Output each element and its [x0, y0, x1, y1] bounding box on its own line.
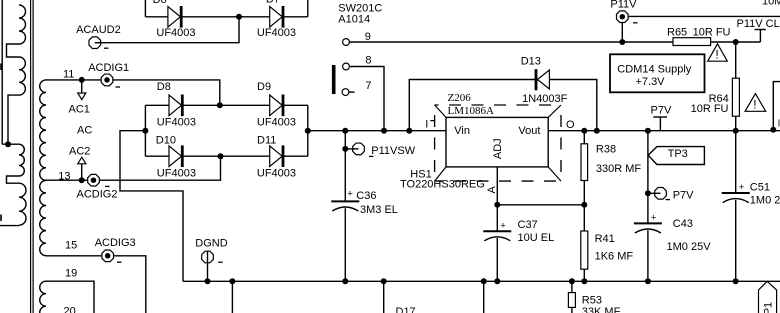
wire C37 bottom: [496, 238, 498, 281]
node rail x384: [381, 278, 387, 284]
connector ACDIG2 symbol: [88, 174, 100, 186]
wire R53 bottom: [571, 307, 573, 313]
resistor R53: [568, 293, 575, 308]
svg-text:LM1086A: LM1086A: [448, 105, 495, 117]
svg-text:D11: D11: [257, 135, 276, 147]
diode D9: [270, 95, 283, 116]
svg-text:P7V: P7V: [673, 189, 694, 201]
wire C51 bottom: [735, 200, 737, 281]
node AC2 arrow: [78, 157, 86, 164]
regulator heatsink dashed box right: [560, 105, 562, 181]
connector ACDIG1 symbol: [101, 74, 113, 86]
svg-text:+: +: [500, 220, 506, 231]
node output C43 branch junction: [645, 128, 651, 134]
svg-text:C36: C36: [356, 190, 376, 202]
warning triangle near R65: [708, 44, 728, 61]
wire R65 to stub corner: [711, 41, 761, 43]
wire R38 bottom: [583, 181, 585, 205]
label P11VSW minus: [369, 155, 374, 157]
wire R41 top: [583, 205, 585, 231]
node primary tap junction: [5, 141, 11, 147]
wire C36 bottom: [344, 208, 346, 281]
wire R53 top: [571, 281, 573, 292]
node rail R41: [581, 278, 587, 284]
svg-text:9: 9: [365, 31, 371, 43]
wire R41 bottom: [583, 269, 585, 281]
svg-text:SW201C: SW201C: [338, 2, 382, 14]
svg-text:+: +: [739, 182, 745, 193]
svg-text:8: 8: [365, 54, 371, 66]
label P11V CL stub bar: [755, 29, 766, 31]
svg-text:UF4003: UF4003: [257, 117, 296, 129]
node output R64 junction: [733, 128, 739, 134]
connector P11VSW symbol: [353, 143, 365, 155]
wire pin15 to ACDIG3: [46, 255, 101, 257]
transformer T1 core line right: [32, 0, 34, 313]
wire pin13 to ACDIG2: [46, 179, 88, 181]
wire primary jog S3-S4: [7, 176, 20, 183]
node P7V tap: [645, 190, 651, 196]
transformer T1 secondary winding 19-20: [40, 281, 46, 313]
wire ground rail: [183, 280, 780, 282]
node AC1 arrow: [78, 93, 86, 100]
svg-text:D8: D8: [157, 81, 171, 93]
switch SW201C actuator bar: [332, 65, 336, 94]
node P11VSW tap: [342, 146, 348, 152]
wire P7V inner stub: [654, 192, 660, 194]
wire D6-D7 row: [145, 16, 307, 18]
svg-text:AC: AC: [77, 124, 92, 136]
svg-text:ACDIG1: ACDIG1: [88, 62, 129, 74]
svg-text:10R FU: 10R FU: [693, 27, 731, 39]
svg-text:UF4003: UF4003: [157, 168, 196, 180]
svg-text:C51: C51: [750, 181, 770, 193]
capacitor C51: [722, 192, 750, 194]
regulator heatsink corner TR: [548, 105, 561, 117]
wire ACDIG1 to D8-D9 row: [107, 80, 220, 105]
svg-text:10R FU: 10R FU: [691, 103, 729, 115]
label primary pin fragment top: [0, 64, 2, 71]
svg-text:C43: C43: [673, 218, 693, 230]
node rail R53: [569, 278, 575, 284]
label ACDIG2 minus: [105, 185, 110, 187]
svg-text:!: !: [753, 98, 756, 112]
diode D7: [270, 7, 283, 28]
node ADJ R38 junction: [581, 202, 587, 208]
svg-text:1M0 25V: 1M0 25V: [667, 241, 712, 253]
warning triangle near R64: [745, 94, 766, 112]
diode D11: [270, 146, 283, 167]
wire contact 8 to input line: [349, 67, 384, 131]
node input riser junction: [406, 128, 412, 134]
svg-text:D7: D7: [266, 0, 280, 6]
svg-text:A1014: A1014: [338, 14, 370, 26]
node ADJ pin junction: [494, 202, 500, 208]
wire upper left rail: [144, 0, 146, 17]
node AC1 tap: [79, 77, 85, 83]
svg-text:+7.3V: +7.3V: [635, 76, 665, 88]
wire input to C36 branch: [344, 131, 346, 202]
node input C36 junction: [342, 128, 348, 134]
wire pin11 to ACDIG1: [46, 79, 101, 81]
transformer T1 primary winding section 4: [19, 183, 26, 225]
wire R64 top: [735, 42, 737, 78]
svg-text:O: O: [566, 119, 575, 131]
svg-text:DGND: DGND: [195, 238, 227, 250]
svg-text:C37: C37: [518, 219, 538, 231]
regulator heatsink dashed box left: [434, 105, 436, 181]
node rail x484: [481, 278, 487, 284]
wire bridge to regulator input: [308, 130, 446, 132]
wire rail drop to D17: [383, 281, 385, 313]
wire ADJ horizontal: [497, 204, 584, 206]
wire rail drop x233: [231, 281, 233, 313]
svg-text:R53: R53: [582, 295, 602, 307]
node output R38 junction: [581, 128, 587, 134]
svg-text:TO220HS30REG: TO220HS30REG: [400, 179, 485, 191]
wire output to C43 branch: [647, 131, 649, 224]
regulator heatsink corner BR: [548, 167, 561, 181]
wire C43 bottom: [647, 230, 649, 281]
svg-text:A: A: [486, 185, 498, 193]
svg-text:ACDIG2: ACDIG2: [77, 189, 118, 201]
transformer T1 primary winding section 2: [19, 57, 25, 95]
wire primary left lead: [1, 0, 3, 144]
capacitor C43: [634, 222, 662, 224]
svg-text:!: !: [715, 48, 718, 62]
label primary pin fragment bottom: [0, 215, 2, 222]
node output right junction: [770, 127, 776, 133]
connector P7V symbol: [655, 187, 667, 199]
wire pin19 down: [46, 281, 94, 313]
connector ACDIG3 symbol: [102, 250, 114, 262]
switch contact 8 circle: [343, 63, 350, 70]
resistor R64: [732, 78, 739, 116]
transformer T1 secondary winding 11-13-15: [40, 80, 46, 256]
transformer T1 primary winding section 1: [19, 5, 26, 44]
transformer T1 primary winding section 3: [19, 144, 24, 176]
node rail DGND: [205, 278, 211, 284]
svg-text:10U EL: 10U EL: [518, 232, 555, 244]
svg-text:20: 20: [64, 306, 76, 313]
label P7V minus: [666, 199, 671, 201]
svg-text:P11V CL: P11V CL: [737, 18, 780, 30]
wire output to C51: [735, 131, 737, 193]
svg-text:D6: D6: [153, 0, 167, 6]
node R65 output junction: [733, 39, 739, 45]
wire output right edge riser: [773, 82, 780, 130]
svg-text:UF4003: UF4003: [157, 117, 196, 129]
wire P7V stub: [648, 192, 661, 194]
wire AC2 stub: [81, 164, 83, 180]
label P11V minus: [633, 22, 638, 24]
regulator heatsink corner TL: [435, 105, 446, 117]
wire D13 to output riser: [537, 80, 597, 131]
wire bridge left rail: [144, 105, 146, 156]
wire P11V CL stub: [759, 30, 761, 43]
svg-text:+: +: [651, 213, 657, 224]
svg-text:ADJ: ADJ: [492, 138, 504, 159]
wire P7V flag stub: [659, 117, 661, 131]
note CDM14 Supply box: [610, 54, 705, 92]
node D10-D11 junction: [218, 153, 224, 159]
diode D13 bar: [535, 69, 538, 90]
svg-text:P11VSW: P11VSW: [371, 145, 415, 157]
wire C37 top: [496, 205, 498, 231]
wire ACAUD2 to D6-D7 junction: [95, 17, 239, 43]
resistor R41: [581, 231, 588, 269]
wire primary jog S1-S2: [7, 44, 20, 57]
node rail C51: [733, 278, 739, 284]
connector ACDIG2 center dot: [91, 177, 97, 183]
svg-text:ACAUD2: ACAUD2: [76, 24, 121, 36]
svg-text:P11V: P11V: [610, 0, 637, 11]
wire ACAUD2 stub: [95, 42, 102, 44]
wire ADJ pin: [496, 167, 498, 205]
svg-text:D13: D13: [521, 55, 541, 67]
wire input pin tick: [430, 120, 434, 122]
wire contact 7 stub: [349, 91, 355, 93]
svg-text:Vout: Vout: [518, 125, 540, 137]
regulator heatsink dashed box top: [435, 104, 561, 106]
node AC2 tap: [79, 177, 85, 183]
diode D8: [169, 95, 182, 116]
node output riser junction: [594, 128, 600, 134]
label P7V flag bar: [653, 116, 667, 118]
node rail C43: [645, 278, 651, 284]
wire ACDIG2 to D10-D11 row: [94, 156, 221, 180]
diode D10: [169, 146, 182, 167]
wire DGND stub: [207, 252, 209, 282]
capacitor C36: [331, 200, 359, 202]
svg-text:3M3 EL: 3M3 EL: [360, 204, 398, 216]
svg-text:330R MF: 330R MF: [596, 163, 642, 175]
capacitor C37: [483, 230, 511, 232]
connector DGND symbol: [202, 251, 214, 263]
svg-text:ACDIG3: ACDIG3: [95, 237, 136, 249]
svg-text:UF4003: UF4003: [257, 168, 296, 180]
switch contact 7 circle: [342, 89, 349, 96]
svg-text:I: I: [425, 119, 428, 131]
transformer T1 core line left: [30, 0, 32, 313]
svg-text:1K6 MF: 1K6 MF: [595, 251, 634, 263]
svg-text:R65: R65: [667, 27, 687, 39]
svg-text:1M0 25V: 1M0 25V: [750, 194, 780, 206]
svg-text:1N4003F: 1N4003F: [522, 93, 568, 105]
connector P11V center dot: [620, 14, 626, 20]
node bridge right rail junction: [305, 128, 311, 134]
regulator heatsink dashed box bottom: [435, 180, 561, 182]
svg-text:R38: R38: [596, 144, 616, 156]
svg-text:+: +: [347, 188, 353, 199]
wire input riser to D13: [409, 80, 535, 131]
wire primary tap horizontal: [2, 143, 19, 145]
svg-text:D10: D10: [156, 135, 176, 147]
wire R64 bottom: [735, 116, 737, 131]
wire P11V stub down: [621, 23, 623, 42]
resistor R65: [673, 38, 711, 46]
svg-text:Vin: Vin: [454, 125, 470, 137]
net flag bottom right: [759, 281, 777, 313]
node bridge left rail junction: [142, 128, 148, 134]
test point TP3 flag: [648, 147, 704, 165]
node rail x233: [229, 278, 235, 284]
label DGND minus: [218, 261, 223, 263]
switch contact 9 circle: [343, 39, 350, 46]
svg-text:AC1: AC1: [69, 104, 90, 116]
wire D8-D9 row: [145, 104, 307, 106]
svg-text:P7V: P7V: [651, 104, 672, 116]
wire ACDIG3 down: [114, 256, 146, 313]
svg-text:AC2: AC2: [69, 146, 90, 158]
svg-text:19: 19: [65, 268, 77, 280]
wire AC1 stub: [81, 80, 83, 93]
regulator heatsink corner BL: [435, 167, 446, 181]
regulator Z206 body: [446, 117, 548, 166]
wire R38 top: [583, 131, 585, 144]
node D8-D9 junction: [217, 102, 223, 108]
connector ACDIG3 center dot: [105, 253, 111, 258]
svg-text:10M: 10M: [762, 0, 780, 8]
label ACDIG3 minus: [117, 261, 122, 263]
connector P11V symbol: [616, 11, 628, 23]
node rail C37: [494, 278, 500, 284]
svg-text:UF4003: UF4003: [156, 27, 195, 39]
wire bridge right rail: [307, 105, 309, 156]
svg-text:TP3: TP3: [668, 148, 688, 160]
node D6-D7 junction: [236, 14, 242, 20]
node rail C36: [342, 278, 348, 284]
svg-text:33K MF: 33K MF: [582, 306, 621, 313]
wire switch 9 to R65: [349, 41, 673, 43]
svg-text:D9: D9: [257, 81, 271, 93]
node contact8 input junction: [381, 128, 387, 134]
wire primary jog S2-tap: [8, 95, 19, 144]
svg-text:UF4003: UF4003: [257, 27, 296, 39]
wire rail drop x484: [483, 281, 485, 313]
connector ACAUD2 symbol: [89, 37, 101, 49]
node P11V junction: [619, 39, 625, 45]
wire D10-D11 row: [145, 155, 307, 157]
wire P11VSW stub: [345, 148, 358, 150]
label right edge fragment: [778, 119, 780, 126]
svg-text:11: 11: [63, 69, 74, 81]
wire AC net: [120, 131, 183, 282]
svg-text:7: 7: [365, 80, 371, 92]
label ACDIG1 minus: [116, 86, 121, 88]
diode D13 triangle: [537, 70, 549, 89]
svg-text:R41: R41: [595, 233, 615, 245]
wire P11V line to right edge: [629, 15, 780, 17]
connector ACDIG1 center dot: [104, 77, 110, 83]
svg-text:CDM14 Supply: CDM14 Supply: [617, 64, 691, 76]
svg-text:P1: P1: [763, 302, 775, 313]
svg-text:D17: D17: [396, 306, 416, 313]
resistor R38: [581, 144, 588, 181]
wire upper right rail: [307, 0, 309, 17]
wire P11VSW inner stub: [352, 148, 358, 150]
wire regulator output line: [548, 130, 780, 132]
svg-text:Z206: Z206: [448, 92, 472, 104]
wire primary bottom lead: [0, 225, 19, 227]
svg-text:15: 15: [65, 240, 77, 252]
diode D6: [168, 7, 181, 28]
label ACAUD2 minus: [104, 47, 109, 49]
